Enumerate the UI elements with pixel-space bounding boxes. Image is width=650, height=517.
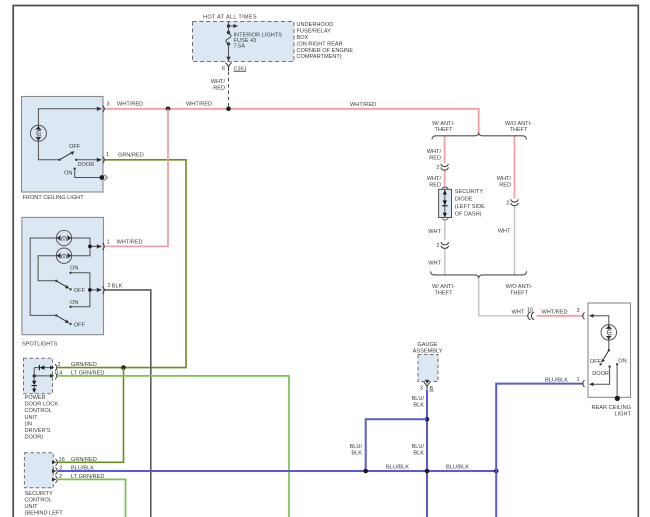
- wire lamp2 left to upper switch: [38, 256, 56, 281]
- lamp (rear ceiling bulb): [601, 324, 617, 341]
- svg-text:3: 3: [107, 102, 110, 108]
- in-line connector (pin 2): [441, 164, 448, 170]
- svg-text:ON: ON: [64, 170, 72, 176]
- FRONT CEILING LIGHT box: [22, 97, 104, 193]
- dashed wire WHT/RED from C351 down to junction: [228, 72, 230, 108]
- node feed dot and arrow: [227, 24, 230, 27]
- svg-text:1: 1: [106, 152, 109, 158]
- svg-text:WHT/RED: WHT/RED: [117, 240, 143, 246]
- svg-text:WHT/: WHT/: [427, 149, 442, 155]
- svg-text:1: 1: [107, 239, 110, 245]
- svg-text:COMPARTMENT): COMPARTMENT): [297, 54, 342, 60]
- wire WHT from bracket to connector 15: [479, 278, 529, 316]
- svg-text:3: 3: [577, 308, 580, 314]
- svg-text:FUSE/RELAY: FUSE/RELAY: [297, 29, 332, 35]
- svg-text:6: 6: [222, 66, 225, 72]
- label UNDERHOOD FUSE/RELAY BOX: [297, 22, 354, 60]
- underhood fuse/relay box (dashed): [193, 22, 295, 62]
- svg-text:UNIT: UNIT: [25, 415, 39, 421]
- junction node lamps: [88, 245, 92, 249]
- junction node inside unit: [33, 374, 36, 377]
- svg-text:BLK: BLK: [413, 451, 424, 457]
- svg-text:THEFT: THEFT: [434, 127, 453, 133]
- spotlight lamp 1: [56, 230, 73, 245]
- junction nodes on main BLU/BLK: [363, 469, 368, 474]
- POWER DOOR LOCK CONTROL UNIT box (dashed): [24, 358, 53, 393]
- pin 2 symbol: [50, 366, 55, 370]
- wire LT GRN/RED from pin 14: [57, 376, 289, 517]
- svg-text:RED: RED: [429, 156, 441, 162]
- spotlight lamp 2: [56, 248, 73, 263]
- junction node at spotlights riser: [166, 107, 171, 112]
- svg-text:GRN/RED: GRN/RED: [118, 152, 144, 158]
- svg-text:ASSEMBLY: ASSEMBLY: [413, 349, 443, 355]
- svg-text:(LEFT SIDE: (LEFT SIDE: [455, 204, 485, 210]
- wire lamp1 left to lower switch: [30, 238, 56, 315]
- svg-text:3: 3: [420, 386, 423, 392]
- svg-text:2: 2: [436, 243, 439, 249]
- svg-text:BLU/BLK: BLU/BLK: [446, 464, 469, 470]
- node to ground continuation: [100, 175, 105, 180]
- diode D1 in pin 2 line: [44, 367, 51, 369]
- svg-text:CORNER OF ENGINE: CORNER OF ENGINE: [297, 48, 354, 54]
- svg-text:DOOR: DOOR: [78, 162, 95, 168]
- svg-text:16: 16: [59, 457, 65, 463]
- svg-text:UNIT: UNIT: [25, 504, 39, 510]
- svg-text:CONTROL: CONTROL: [25, 408, 52, 414]
- svg-text:1: 1: [577, 377, 580, 383]
- svg-text:REAR CEILING: REAR CEILING: [592, 405, 631, 411]
- svg-text:ON: ON: [70, 300, 78, 306]
- svg-text:DRIVER'S: DRIVER'S: [25, 428, 51, 434]
- svg-text:OFF: OFF: [590, 359, 602, 365]
- svg-text:SPOTLIGHTS: SPOTLIGHTS: [22, 341, 58, 347]
- svg-text:(ON RIGHT REAR: (ON RIGHT REAR: [297, 41, 343, 47]
- junction node gauge branch: [425, 417, 430, 422]
- svg-text:RED: RED: [499, 183, 511, 189]
- svg-text:CONTROL: CONTROL: [25, 498, 52, 504]
- svg-text:BLU/BLK: BLU/BLK: [386, 464, 409, 470]
- svg-text:DIODE: DIODE: [455, 197, 473, 203]
- wire lamp top to pin 3: [38, 109, 98, 126]
- wire lamp to switch: [608, 340, 610, 350]
- svg-text:BLK: BLK: [413, 403, 424, 409]
- wire WHT/RED spotlights riser: [105, 109, 169, 247]
- wires lamp rights to pin 1: [72, 238, 99, 256]
- svg-text:WHT: WHT: [428, 261, 441, 267]
- svg-text:THEFT: THEFT: [434, 290, 453, 296]
- svg-text:2: 2: [436, 165, 439, 171]
- svg-text:WHT: WHT: [512, 310, 525, 316]
- svg-text:WHT: WHT: [428, 229, 441, 235]
- anti-theft bottom bracket: [431, 271, 527, 278]
- svg-text:WHT/: WHT/: [427, 176, 442, 182]
- junction node GRN/RED branch: [121, 365, 126, 370]
- in-line connector (pin 2): [511, 199, 518, 205]
- wire BLU/BLK from gauge assembly down: [426, 390, 428, 517]
- ON contact to case ground: [616, 363, 618, 365]
- REAR CEILING LIGHT box: [588, 303, 631, 397]
- SECURITY CONTROL UNIT box (dashed): [24, 453, 53, 488]
- svg-text:DOOR): DOOR): [25, 435, 44, 441]
- svg-text:SECURITY: SECURITY: [25, 491, 54, 497]
- svg-text:W/ ANTI-: W/ ANTI-: [432, 121, 455, 127]
- switch (OFF/DOOR/ON) front ceiling: [58, 159, 60, 161]
- pin 2 symbol: [52, 477, 57, 481]
- svg-text:FRONT CEILING LIGHT: FRONT CEILING LIGHT: [23, 195, 85, 201]
- wire DOOR contact to pin 1: [593, 367, 610, 385]
- wire LT GRN/RED from pin 2 down: [57, 479, 126, 517]
- svg-text:UNDERHOOD: UNDERHOOD: [297, 22, 334, 28]
- svg-text:BLU/: BLU/: [412, 444, 425, 450]
- svg-text:WHT/RED: WHT/RED: [186, 102, 212, 108]
- svg-text:GRN/RED: GRN/RED: [71, 362, 97, 368]
- main wire WHT/RED horizontal: [105, 109, 479, 134]
- lower switch ON/OFF: [55, 314, 57, 316]
- wire WHT/RED w/o anti-theft branch: [514, 137, 516, 199]
- wire WHT w/o branch: [514, 206, 516, 274]
- svg-text:WHT/: WHT/: [211, 79, 226, 85]
- switch (OFF/DOOR/ON) rear ceiling: [608, 349, 610, 351]
- svg-text:OF DASH): OF DASH): [455, 212, 482, 218]
- svg-text:WHT/: WHT/: [497, 176, 512, 182]
- in-line connector (pin 2): [441, 242, 448, 248]
- connector B (pin 3) below gauge assembly: [425, 380, 429, 384]
- diode D2 to ground: [33, 368, 35, 381]
- svg-text:WHT/RED: WHT/RED: [542, 310, 568, 316]
- switch ON contact to case node: [74, 168, 76, 170]
- pin 14 wire: [34, 375, 51, 377]
- pin 3 entry arrow: [589, 314, 594, 318]
- junction node switches: [88, 288, 92, 292]
- svg-text:WHT/RED: WHT/RED: [117, 102, 143, 108]
- svg-text:ON: ON: [70, 266, 78, 272]
- connector C351 (pin 8): [225, 63, 231, 72]
- svg-text:HOT AT ALL TIMES: HOT AT ALL TIMES: [203, 15, 257, 21]
- svg-text:BLU/: BLU/: [350, 444, 363, 450]
- security diode box: [439, 189, 452, 217]
- wire GRN/RED from pin 1 to power door lock unit: [57, 160, 186, 368]
- wire WHT/RED to rear ceiling light: [537, 315, 584, 317]
- svg-text:(IN: (IN: [25, 421, 32, 427]
- svg-text:THEFT: THEFT: [509, 127, 528, 133]
- svg-text:W/O ANTI-: W/O ANTI-: [505, 284, 532, 290]
- svg-text:W/ ANTI-: W/ ANTI-: [432, 284, 455, 290]
- wire BLU/BLK main from pin 3: [57, 470, 496, 472]
- SPOTLIGHTS box: [22, 217, 104, 334]
- wire BLU/BLK branch left: [366, 419, 427, 471]
- svg-text:ON: ON: [618, 359, 626, 365]
- svg-text:RED: RED: [213, 86, 225, 92]
- svg-text:7.5A: 7.5A: [234, 43, 246, 49]
- lamp (front ceiling bulb): [30, 125, 46, 142]
- pin 3 symbol: [52, 469, 57, 473]
- svg-text:POWER: POWER: [25, 395, 46, 401]
- svg-text:THEFT: THEFT: [510, 290, 529, 296]
- svg-text:OFF: OFF: [74, 322, 86, 328]
- svg-text:W/O ANTI-: W/O ANTI-: [505, 121, 532, 127]
- svg-text:BLU/BLK: BLU/BLK: [545, 378, 568, 384]
- svg-text:GRN/RED: GRN/RED: [71, 457, 97, 463]
- wire from fuse to box edge with exit arrow: [228, 44, 230, 57]
- wire WHT/RED w/ anti-theft branch: [444, 137, 446, 164]
- pin 16 symbol: [52, 460, 57, 464]
- upper switch ON/OFF: [55, 280, 57, 282]
- svg-text:OFF: OFF: [69, 144, 81, 150]
- svg-text:2: 2: [506, 201, 509, 207]
- svg-text:(BEHIND LEFT: (BEHIND LEFT: [25, 511, 64, 517]
- in-line connector (pin 15): [528, 312, 534, 319]
- svg-text:2: 2: [108, 283, 111, 289]
- wire BLU/BLK riser to rear ceiling light: [496, 384, 583, 517]
- wire WHT below diode: [444, 221, 446, 241]
- wire inside fuse box: [228, 22, 230, 33]
- svg-text:WHT: WHT: [498, 229, 511, 235]
- svg-text:RED: RED: [429, 183, 441, 189]
- wire lamp bottom to switch: [38, 141, 59, 160]
- svg-text:2: 2: [58, 362, 61, 368]
- svg-text:WHT/RED: WHT/RED: [350, 102, 376, 108]
- svg-text:BLU/: BLU/: [412, 396, 425, 402]
- wire BLK from pin 2 down: [105, 290, 151, 517]
- svg-text:BLK: BLK: [112, 283, 123, 289]
- svg-text:BOX: BOX: [297, 35, 309, 41]
- svg-text:OFF: OFF: [74, 288, 86, 294]
- svg-text:BLK: BLK: [351, 451, 362, 457]
- junction node at fuse drop: [226, 107, 231, 112]
- wire GRN/RED branch to security control unit pin 16: [57, 368, 124, 463]
- svg-text:LIGHT: LIGHT: [615, 412, 632, 418]
- svg-text:DOOR: DOOR: [592, 371, 609, 377]
- svg-text:SECURITY: SECURITY: [455, 189, 484, 195]
- svg-text:DOOR LOCK: DOOR LOCK: [25, 402, 59, 408]
- svg-text:GAUGE: GAUGE: [417, 342, 437, 348]
- fuse F43 (INTERIOR LIGHTS 7.5A): [227, 31, 230, 34]
